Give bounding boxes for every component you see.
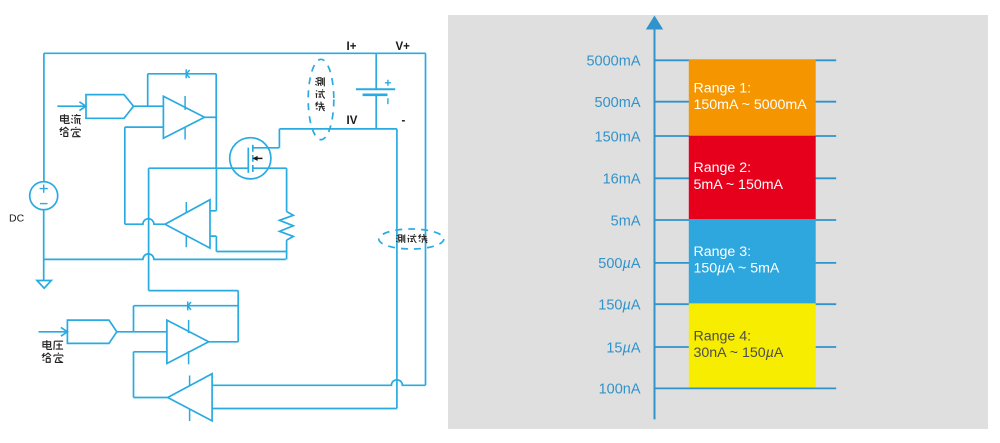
label 电压给定: [43, 340, 64, 362]
wire battery bottom lead: [375, 95, 377, 129]
op-amp U2: [165, 200, 210, 248]
black terminal labels: [9, 41, 410, 225]
block Range2 red: [689, 136, 816, 219]
wire gate rail: [149, 167, 249, 169]
DC source circle: [30, 182, 58, 210]
label 测试线 vertical: [315, 77, 325, 111]
wire U4 output: [134, 397, 168, 399]
tick 16mA: [654, 177, 837, 179]
op-amp U4: [168, 374, 212, 421]
test-line ellipse E1: [308, 59, 334, 139]
block Range4 yellow: [689, 303, 816, 387]
wire U2 output to U1 input vertical: [124, 127, 126, 224]
wire sense bottom horizontal: [149, 290, 239, 292]
wire U4 lower input: [212, 408, 397, 410]
op-amp U4 power ticks: [189, 376, 191, 422]
wire U1 output riser to gate: [215, 74, 217, 168]
wire left edge: [43, 53, 45, 181]
DC source minus sign: [40, 203, 48, 205]
wire U3 feedback top: [134, 305, 239, 307]
svg-text:Range 4:: Range 4:: [694, 328, 752, 344]
op-amp U3 power ticks: [188, 320, 190, 365]
tick 5mA: [654, 219, 837, 221]
tick 100nA: [654, 387, 837, 389]
wire U2 lower input notch: [210, 236, 216, 251]
svg-text:5000mA: 5000mA: [586, 54, 640, 70]
wire top rail: [44, 52, 426, 54]
label 电流给定: [60, 114, 81, 137]
svg-text:30nA ~ 150µA: 30nA ~ 150µA: [694, 345, 784, 361]
svg-text:IV: IV: [347, 115, 358, 127]
svg-text:500mA: 500mA: [595, 95, 641, 111]
svg-text:150mA ~ 5000mA: 150mA ~ 5000mA: [694, 97, 808, 113]
svg-text:-: -: [402, 115, 406, 127]
svg-text:150mA: 150mA: [595, 129, 641, 145]
label 测试线 horizontal: [396, 234, 427, 243]
battery plus sign: [385, 80, 391, 86]
K symbol on U3 feedback: [188, 302, 191, 311]
tick 500mA: [654, 101, 837, 103]
arrow into pentagon P2: [39, 327, 68, 336]
axis labels: [586, 54, 640, 398]
wire IV rail: [279, 128, 397, 130]
op-amp U1: [163, 96, 204, 138]
wire U1 inverting input: [125, 126, 164, 128]
svg-text:Range 3:: Range 3:: [694, 244, 752, 260]
tick 500uA: [654, 262, 837, 264]
svg-text:100nA: 100nA: [599, 382, 641, 398]
transistor Q1 gate bar: [247, 148, 249, 173]
block Range3 blue: [689, 219, 816, 303]
svg-text:16mA: 16mA: [603, 172, 641, 188]
DC source plus sign: [40, 185, 48, 193]
svg-text:5mA: 5mA: [611, 213, 641, 229]
svg-text:150µA: 150µA: [598, 298, 641, 314]
transistor Q1 circle: [230, 138, 271, 179]
svg-text:Range 1:: Range 1:: [694, 80, 752, 96]
block Range1 orange: [689, 59, 816, 135]
wire sense to U3 vertical: [237, 291, 239, 342]
svg-text:500µA: 500µA: [598, 256, 641, 272]
svg-text:Range 2:: Range 2:: [694, 160, 752, 176]
svg-text:5mA ~ 150mA: 5mA ~ 150mA: [694, 177, 784, 193]
wire sense drop vertical: [148, 168, 150, 290]
transistor Q1 black arrow: [252, 156, 262, 161]
wire Q1 drain tap: [253, 129, 280, 148]
arrow into pentagon P1: [57, 102, 86, 111]
tick 5000mA: [654, 59, 837, 61]
wire Q1 source tap: [253, 167, 287, 169]
wire U1 output: [205, 116, 217, 118]
wire U3 lower input: [134, 352, 167, 398]
wire U3 feedback left vertical: [133, 306, 135, 332]
svg-text:I+: I+: [347, 41, 357, 53]
tick 15uA: [654, 346, 837, 348]
pentagon P2: [67, 320, 116, 343]
wire P2 to opamp U3: [117, 331, 167, 333]
test-line ellipse E2: [379, 229, 444, 249]
range block texts: [694, 80, 808, 361]
battery B1 plates: [356, 88, 395, 90]
ground: [37, 281, 51, 289]
wire resistor bottom lead: [286, 240, 288, 259]
op-amp U1 power ticks: [184, 96, 186, 140]
tick 150mA: [654, 135, 837, 137]
tick 150uA: [654, 303, 837, 305]
K symbol on U1 feedback: [186, 69, 189, 78]
wire right edge V-: [425, 53, 427, 385]
transistor Q1 channel bars: [252, 145, 254, 172]
op-amp U3: [167, 320, 209, 363]
wire below DC source: [43, 210, 45, 281]
svg-text:DC: DC: [9, 213, 25, 225]
wire U2 output with hop: [125, 219, 165, 224]
op-amp U2 power ticks: [185, 202, 187, 247]
axis vertical line: [654, 27, 656, 419]
gray panel background: [448, 15, 988, 429]
wire U2 lower input to resistor bottom: [216, 251, 286, 253]
wire P1 to opamp U1: [134, 105, 164, 107]
wire U2 upper input notch: [210, 168, 216, 211]
wire DC ground rail with hop: [44, 254, 286, 260]
wire U3 output: [209, 341, 239, 343]
pentagon P1: [86, 95, 134, 119]
wire U4 upper input with hop: [212, 380, 425, 386]
resistor R1: [280, 212, 294, 241]
svg-text:15µA: 15µA: [606, 340, 641, 356]
axis arrowhead: [646, 16, 663, 30]
wire U1 feedback left vertical: [147, 74, 149, 106]
wire U1 feedback top: [148, 73, 217, 75]
wire IV vertical: [396, 129, 398, 409]
wire battery riser: [375, 53, 377, 89]
battery minus tick: [387, 98, 389, 104]
svg-text:150µA ~ 5mA: 150µA ~ 5mA: [694, 261, 780, 277]
svg-text:V+: V+: [396, 41, 411, 53]
wire source to resistor: [286, 168, 288, 211]
